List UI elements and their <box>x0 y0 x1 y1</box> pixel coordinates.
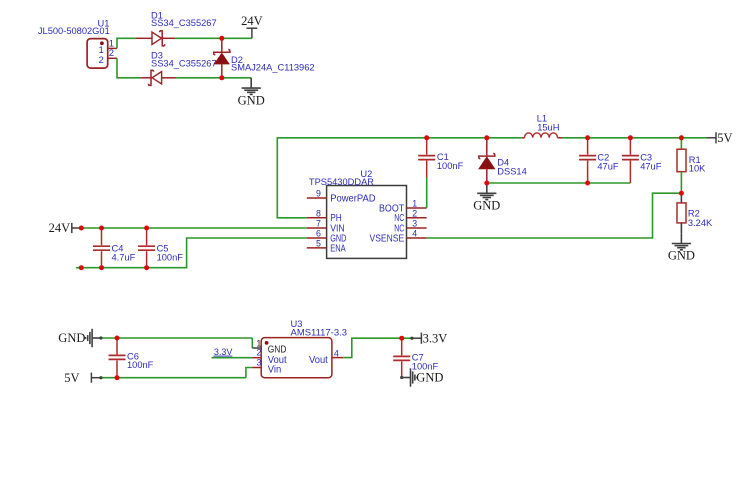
svg-text:2: 2 <box>256 348 261 358</box>
svg-text:SS34_C355267: SS34_C355267 <box>151 59 217 69</box>
svg-text:SMAJ24A_C113962: SMAJ24A_C113962 <box>231 63 315 73</box>
svg-text:4: 4 <box>334 348 339 358</box>
svg-text:24V: 24V <box>49 221 71 235</box>
svg-text:GND: GND <box>268 344 287 355</box>
svg-text:GND: GND <box>668 249 695 263</box>
svg-text:TPS5430DDAR: TPS5430DDAR <box>309 177 374 187</box>
svg-text:24V: 24V <box>241 14 263 28</box>
svg-text:GND: GND <box>416 370 443 384</box>
svg-text:47uF: 47uF <box>640 161 662 171</box>
svg-text:SS34_C355267: SS34_C355267 <box>151 18 217 28</box>
svg-text:3: 3 <box>256 357 261 367</box>
svg-text:7: 7 <box>316 219 321 229</box>
svg-text:3.3V: 3.3V <box>423 332 448 346</box>
svg-text:10K: 10K <box>689 163 706 173</box>
svg-text:47uF: 47uF <box>597 161 619 171</box>
svg-text:GND: GND <box>58 331 85 345</box>
svg-text:2: 2 <box>99 55 104 66</box>
svg-text:8: 8 <box>316 208 321 218</box>
svg-text:Vout: Vout <box>309 355 328 366</box>
svg-text:9: 9 <box>316 189 321 199</box>
svg-text:ENA: ENA <box>330 243 346 254</box>
svg-text:PowerPAD: PowerPAD <box>330 194 375 205</box>
svg-text:JL500-50802G01: JL500-50802G01 <box>38 26 110 36</box>
svg-text:100nF: 100nF <box>127 360 154 370</box>
svg-text:3: 3 <box>412 219 417 229</box>
svg-text:100nF: 100nF <box>437 161 464 171</box>
svg-text:5V: 5V <box>717 131 732 145</box>
svg-text:15uH: 15uH <box>537 123 559 133</box>
svg-text:3.24K: 3.24K <box>688 218 713 228</box>
svg-text:DSS14: DSS14 <box>497 166 526 176</box>
svg-text:5: 5 <box>316 238 321 248</box>
svg-text:100nF: 100nF <box>157 253 184 263</box>
svg-text:AMS1117-3.3: AMS1117-3.3 <box>291 327 348 337</box>
svg-text:5V: 5V <box>64 371 79 385</box>
svg-text:GND: GND <box>238 93 265 107</box>
svg-text:2: 2 <box>412 208 417 218</box>
svg-text:VSENSE: VSENSE <box>370 233 405 244</box>
svg-text:GND: GND <box>473 199 500 213</box>
svg-text:Vin: Vin <box>268 365 282 376</box>
svg-text:1: 1 <box>412 199 417 209</box>
svg-text:6: 6 <box>316 229 321 239</box>
svg-text:4: 4 <box>412 229 417 239</box>
svg-text:4.7uF: 4.7uF <box>112 253 136 263</box>
